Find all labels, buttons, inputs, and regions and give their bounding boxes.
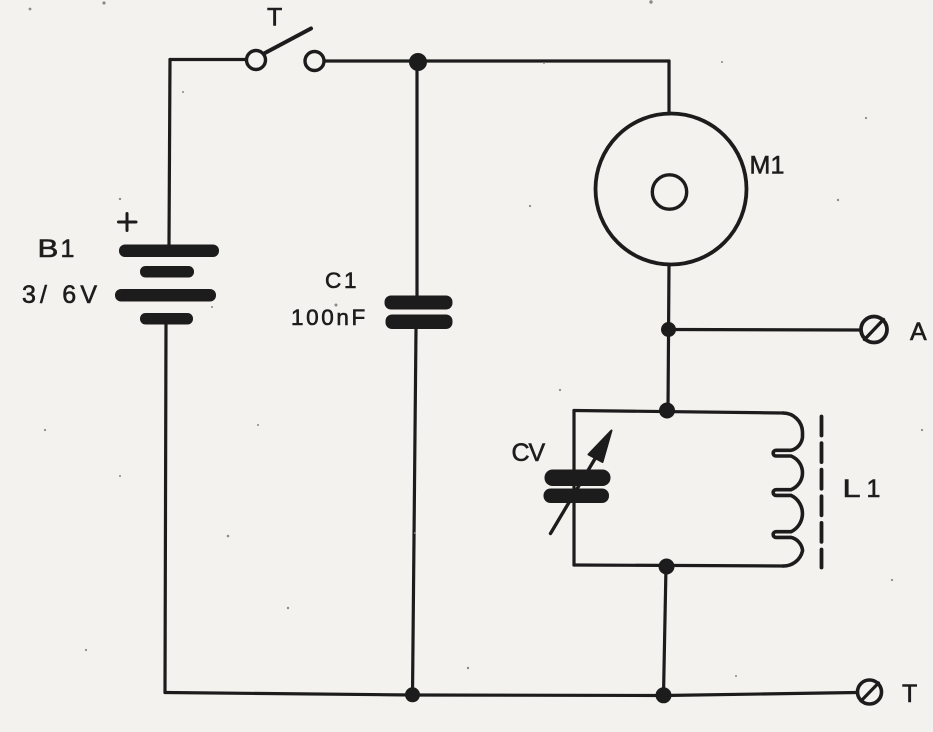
- svg-text:1: 1: [344, 268, 357, 293]
- node junction dot at tank circuit bottom: [659, 559, 675, 575]
- switch T right contact circle: [305, 52, 324, 71]
- variable capacitor CV arrow shaft: [551, 452, 600, 534]
- motor M1 inner shaft circle: [652, 175, 686, 209]
- node junction dot bottom rail at tank leg: [656, 687, 672, 703]
- svg-text:T: T: [902, 680, 917, 708]
- variable capacitor CV top plate: [545, 470, 611, 487]
- svg-text:1: 1: [771, 152, 785, 180]
- battery B1 long plate 1: [119, 245, 219, 258]
- svg-text:100nF: 100nF: [291, 305, 368, 330]
- label B1 (battery): [38, 234, 75, 263]
- svg-text:1: 1: [61, 235, 75, 263]
- variable capacitor CV bottom plate: [544, 489, 610, 504]
- svg-text:B: B: [38, 234, 59, 262]
- battery B1 long plate 3: [115, 289, 216, 302]
- wire bottom rail from left rail to terminal T: [165, 693, 857, 696]
- capacitor C1 top plate: [385, 296, 453, 310]
- svg-text:1: 1: [867, 475, 881, 503]
- wire from node A junction to terminal A: [669, 328, 862, 332]
- battery B1 plus sign: [119, 214, 137, 231]
- inductor L1 core dashed line: [820, 417, 824, 568]
- capacitor C1 bottom plate: [386, 315, 453, 330]
- label M1 (motor): [750, 152, 785, 180]
- wire from motor M1 bottom down to node A junction: [668, 265, 669, 411]
- terminal T circle with slash: [858, 680, 882, 704]
- node A junction dot: [661, 322, 676, 337]
- terminal A circle with slash: [861, 317, 887, 343]
- svg-text:C: C: [325, 268, 341, 293]
- label CV (variable capacitor): [512, 439, 546, 467]
- switch T left contact circle: [247, 51, 266, 70]
- inductor L1 coil bumps: [773, 413, 802, 566]
- node junction dot at tank circuit top: [659, 403, 675, 419]
- wire battery B1 negative lead down the left rail to bottom rail: [165, 324, 166, 693]
- svg-text:T: T: [267, 4, 282, 32]
- label C1 (capacitor): [325, 268, 357, 293]
- svg-text:M: M: [750, 152, 771, 180]
- wire left rail vertical from top corner down to battery B1 positive: [169, 60, 170, 246]
- wire tank left vertical through CV: [572, 411, 575, 566]
- svg-text:L: L: [843, 475, 861, 503]
- label L1 (inductor): [843, 475, 881, 503]
- motor M1 outer body circle: [596, 114, 747, 265]
- node junction dot bottom rail at C1 leg: [405, 687, 420, 702]
- wire tank bottom from left corner to coil L1: [574, 565, 783, 566]
- wire tank top from CV branch corner to coil L1: [574, 411, 783, 414]
- wire from switch T to top-right corner above motor M1: [325, 59, 670, 62]
- svg-text:A: A: [910, 318, 927, 346]
- svg-text:C: C: [512, 439, 530, 467]
- wire C1 upper lead from top junction down to C1 top plate: [415, 62, 418, 297]
- wire C1 lower lead from bottom plate down to bottom rail: [413, 329, 417, 695]
- variable capacitor CV arrow head: [589, 431, 612, 463]
- wire from tank bottom junction to bottom rail: [664, 567, 667, 696]
- battery B1 short plate 2: [140, 266, 194, 278]
- switch T lever arm: [264, 29, 311, 54]
- wire top-left horizontal from left rail to switch T: [170, 58, 246, 61]
- svg-text:V: V: [529, 439, 546, 467]
- battery B1 short plate 4: [140, 313, 193, 325]
- wire vertical drop from top wire into motor M1 top: [667, 61, 670, 114]
- node junction dot at C1 top tap on top wire: [409, 53, 427, 71]
